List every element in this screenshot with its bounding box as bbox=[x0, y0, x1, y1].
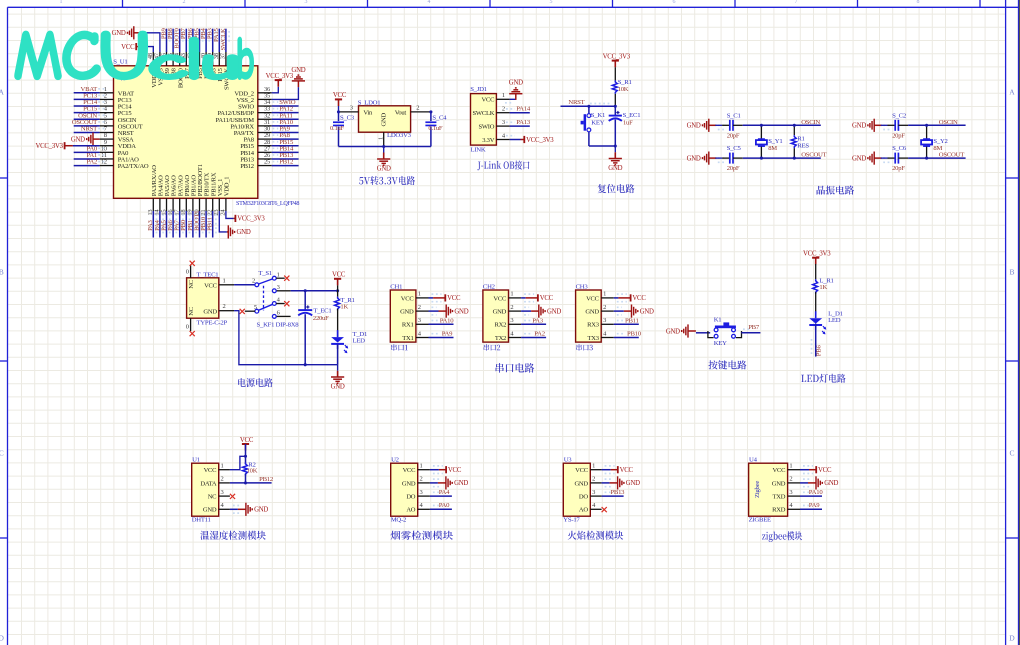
CH2 pin 4 TX2 bbox=[509, 337, 522, 339]
power port VCC_3V3 at U1 pin 9 VDDA bbox=[65, 145, 73, 147]
power port VCC_3V3 led circuit bbox=[815, 258, 817, 265]
svg-text:NC: NC bbox=[208, 494, 217, 501]
svg-text:GND: GND bbox=[112, 30, 126, 37]
svg-text:VCC: VCC bbox=[586, 295, 599, 302]
svg-text:D: D bbox=[1009, 634, 1015, 643]
svg-text:8: 8 bbox=[917, 0, 920, 5]
U1 pin 12 PA2/TX/AO bbox=[100, 165, 114, 167]
svg-text:PB12: PB12 bbox=[240, 163, 254, 170]
svg-text:VCC: VCC bbox=[620, 467, 634, 474]
svg-text:GND: GND bbox=[454, 308, 468, 315]
U1 pin 3 NC bbox=[219, 495, 230, 497]
svg-text:B: B bbox=[1009, 268, 1014, 277]
svg-text:NC: NC bbox=[188, 307, 195, 316]
svg-text:1: 1 bbox=[502, 92, 505, 99]
svg-text:VCC: VCC bbox=[403, 467, 416, 474]
svg-text:GND: GND bbox=[626, 480, 640, 487]
junction EC1 top bbox=[304, 289, 307, 292]
switch pin 6 stub bbox=[276, 315, 290, 317]
svg-text:2: 2 bbox=[502, 106, 505, 113]
svg-text:OSCIN: OSCIN bbox=[801, 119, 820, 126]
svg-text:1K: 1K bbox=[819, 284, 827, 291]
svg-text:GND: GND bbox=[493, 309, 507, 316]
connector T_TEC1 body TYPE-C-2P bbox=[187, 278, 219, 318]
svg-text:3: 3 bbox=[350, 104, 353, 111]
svg-text:PB11: PB11 bbox=[625, 317, 639, 324]
svg-text:7: 7 bbox=[795, 0, 798, 5]
led L_D1 bbox=[815, 311, 817, 318]
power port VCC power circuit bbox=[337, 279, 339, 286]
junction R2 jog bbox=[244, 455, 247, 458]
svg-text:VCC_3V3: VCC_3V3 bbox=[603, 53, 631, 60]
power port VCC_3V3 reset bbox=[614, 61, 616, 68]
wire net PA2 bbox=[521, 337, 546, 339]
wire CH3 pin1 to VCC bbox=[614, 297, 619, 299]
svg-text:3: 3 bbox=[603, 317, 606, 324]
svg-text:U3: U3 bbox=[564, 456, 573, 463]
wire net PB5 bbox=[199, 29, 201, 52]
svg-text:6: 6 bbox=[673, 0, 676, 5]
svg-text:S_C6: S_C6 bbox=[892, 145, 907, 152]
module U3 body YS-17 bbox=[563, 463, 590, 516]
svg-text:GND: GND bbox=[852, 123, 866, 130]
ground at S_C2 bbox=[874, 124, 882, 126]
wire net PA14 bbox=[510, 112, 530, 114]
MCUclub logo bbox=[15, 32, 253, 80]
svg-text:TX2: TX2 bbox=[495, 335, 506, 342]
wire net OSCIN bbox=[74, 118, 100, 120]
power port VCC at CH1 bbox=[444, 294, 446, 301]
svg-text:PA2/TX/AO: PA2/TX/AO bbox=[118, 163, 149, 170]
svg-text:VCC: VCC bbox=[818, 467, 832, 474]
op-amp U1 body STM32F103C8T6 bbox=[114, 66, 258, 199]
wire net PB0 bbox=[185, 211, 187, 238]
caption humidity module bbox=[200, 531, 266, 540]
svg-text:20pF: 20pF bbox=[892, 165, 905, 172]
U1 pin 33 PA12/USB/DP bbox=[258, 112, 272, 114]
svg-text:VCC_3V3: VCC_3V3 bbox=[237, 216, 265, 223]
power port VCC_3V3 at U1 pin 36 bbox=[277, 80, 279, 87]
svg-text:ZIGBEE: ZIGBEE bbox=[749, 517, 771, 524]
svg-text:VCC: VCC bbox=[575, 467, 588, 474]
wire net SWIO bbox=[272, 105, 299, 107]
svg-text:AO: AO bbox=[579, 507, 588, 514]
LDO pin 2 Vout bbox=[411, 111, 431, 113]
svg-text:VCC: VCC bbox=[240, 437, 254, 444]
ground at JD1 pin 1 bbox=[515, 94, 517, 100]
junction NRST-key bbox=[587, 105, 590, 108]
svg-text:A: A bbox=[1009, 88, 1015, 97]
resistor R1 feedback bbox=[793, 125, 795, 135]
svg-text:VCC: VCC bbox=[204, 467, 217, 474]
svg-text:DO: DO bbox=[406, 494, 415, 501]
connector CH3 body bbox=[576, 290, 602, 342]
svg-text:2: 2 bbox=[420, 476, 423, 483]
svg-text:PB6: PB6 bbox=[816, 345, 823, 357]
wire net PA9 bbox=[429, 337, 454, 339]
svg-text:YS-17: YS-17 bbox=[563, 517, 580, 524]
led T_D1 bbox=[337, 309, 339, 337]
svg-text:S_EC1: S_EC1 bbox=[623, 112, 641, 119]
svg-text:GND: GND bbox=[687, 123, 701, 130]
ground at U1 pin 35 bbox=[297, 81, 299, 87]
svg-text:1uF: 1uF bbox=[623, 120, 633, 127]
connector CH1 body bbox=[390, 290, 416, 342]
junction crystal top bbox=[925, 124, 928, 127]
regulator S_LDO1 body LDO3V3 bbox=[359, 106, 411, 132]
svg-text:GND: GND bbox=[400, 309, 414, 316]
U1 pin 2 PC13 bbox=[100, 98, 114, 100]
U1 pin 18 PB0/AO bbox=[185, 198, 187, 211]
power port VCC_3V3 at U1 pin 24 bbox=[234, 217, 236, 219]
svg-text:3: 3 bbox=[418, 317, 421, 324]
svg-text:GND: GND bbox=[331, 384, 345, 391]
wire net PA1 bbox=[74, 158, 100, 160]
svg-text:C: C bbox=[0, 449, 4, 458]
wire net PA11 bbox=[272, 118, 299, 120]
power port VCC_3V3 at JD1 pin 4 bbox=[523, 136, 525, 143]
svg-text:LINK: LINK bbox=[471, 147, 486, 154]
ground at LDO bbox=[383, 147, 385, 153]
svg-text:PA0: PA0 bbox=[439, 502, 450, 509]
svg-text:5: 5 bbox=[254, 304, 257, 311]
switch pin 4 stub NC bbox=[276, 303, 285, 305]
junction crystal bottom bbox=[925, 157, 928, 160]
svg-text:TX3: TX3 bbox=[588, 335, 600, 342]
LDO pin 1 GND bbox=[383, 132, 385, 146]
junction crystal bottom bbox=[760, 157, 763, 160]
U4 pin 2 GND bbox=[788, 482, 800, 484]
U4 pin 4 RXD bbox=[788, 508, 800, 510]
wire U2 pin2 to GND bbox=[430, 482, 438, 484]
wire U4 pin1 to VCC bbox=[800, 469, 809, 471]
wire TEC1 GND down bbox=[234, 311, 338, 365]
U1 pin 17 PA7/AO bbox=[179, 198, 181, 211]
svg-text:GND: GND bbox=[574, 480, 588, 487]
svg-text:20pF: 20pF bbox=[727, 132, 740, 139]
wire net PB7 bbox=[741, 332, 760, 334]
wire net PB11 bbox=[614, 323, 639, 325]
switch pin 3 wire bbox=[276, 290, 290, 292]
wire net PC14 bbox=[74, 105, 100, 107]
U1 pin 7 NRST bbox=[100, 131, 114, 133]
svg-text:S_C5: S_C5 bbox=[727, 145, 742, 152]
svg-text:1: 1 bbox=[418, 291, 421, 298]
U1 pin 41 PB5 bbox=[199, 52, 201, 66]
U1 pin3 no connect bbox=[230, 494, 235, 499]
U1 pin 26 PB13 bbox=[258, 158, 272, 160]
caption serial circuit bbox=[496, 363, 535, 373]
wire net VBAT bbox=[74, 92, 100, 94]
U1 pin 2 DATA bbox=[219, 482, 230, 484]
wire net SWCLK bbox=[225, 29, 227, 52]
svg-text:U2: U2 bbox=[391, 456, 399, 463]
U1 pin 23 VSS_1 bbox=[218, 198, 220, 211]
wire net PB13 bbox=[602, 495, 624, 497]
junction NRST-R1 bbox=[614, 105, 617, 108]
svg-text:VCC: VCC bbox=[447, 295, 461, 302]
svg-text:VCC: VCC bbox=[401, 295, 414, 302]
connector CH2 body bbox=[483, 290, 509, 342]
svg-text:RX2: RX2 bbox=[494, 322, 506, 329]
svg-text:GND: GND bbox=[547, 308, 561, 315]
svg-text:1: 1 bbox=[420, 463, 423, 470]
wire net OSCOUT bbox=[74, 125, 100, 127]
switch link dashed bbox=[263, 286, 265, 311]
CH3 pin 3 RX3 bbox=[601, 323, 614, 325]
svg-text:1: 1 bbox=[60, 0, 63, 5]
svg-text:RX3: RX3 bbox=[587, 322, 600, 329]
ground at S_C1 bbox=[709, 124, 717, 126]
U1 pin 43 PB7 bbox=[185, 52, 187, 66]
svg-text:SWCLK: SWCLK bbox=[473, 110, 495, 117]
U1 pin 5 OSCIN bbox=[100, 118, 114, 120]
LDO pin 3 Vin bbox=[339, 111, 359, 113]
svg-text:VCC: VCC bbox=[540, 295, 554, 302]
power port VCC at U3 bbox=[617, 466, 619, 473]
wire net PB10 bbox=[614, 337, 639, 339]
wire JD1 pin1 to GND bbox=[510, 98, 516, 100]
svg-text:VCC_3V3: VCC_3V3 bbox=[266, 73, 294, 80]
svg-text:A: A bbox=[0, 88, 4, 97]
no-ERC marker bbox=[121, 77, 124, 80]
wire net PB12 bbox=[272, 165, 299, 167]
svg-text:2: 2 bbox=[416, 104, 419, 111]
svg-text:PA2: PA2 bbox=[534, 331, 545, 338]
U3 pin 1 VCC bbox=[590, 469, 601, 471]
svg-text:220uF: 220uF bbox=[313, 315, 329, 322]
wire net PA4 bbox=[159, 211, 161, 238]
wire net PA15 bbox=[218, 29, 220, 52]
capacitor S_C6 bbox=[883, 157, 890, 159]
svg-text:U4: U4 bbox=[749, 456, 758, 463]
caption crystal circuit bbox=[817, 186, 855, 195]
svg-text:VCC: VCC bbox=[204, 282, 217, 289]
svg-text:RXD: RXD bbox=[772, 507, 786, 514]
U1 pin 21 PB10/TX bbox=[205, 198, 207, 211]
svg-text:TXD: TXD bbox=[772, 494, 785, 501]
wire net PB14 bbox=[272, 151, 299, 153]
ground at S_C6 bbox=[874, 157, 882, 159]
U1 pin 37 SWCLK bbox=[225, 52, 227, 66]
U1 pin 39 PB3 bbox=[212, 52, 214, 66]
U1 pin 34 SWIO bbox=[258, 105, 272, 107]
wire net PA12 bbox=[272, 112, 299, 114]
wire net PC15 bbox=[74, 112, 100, 114]
junction at LDO Vout bbox=[429, 110, 432, 113]
svg-text:PA4: PA4 bbox=[439, 489, 450, 496]
U1 pin 36 VDD_2 bbox=[258, 92, 272, 94]
svg-text:1: 1 bbox=[510, 291, 513, 298]
TEC1 pin 2 GND bbox=[219, 310, 234, 312]
svg-text:GND: GND bbox=[381, 113, 388, 127]
svg-text:0: 0 bbox=[186, 323, 189, 330]
svg-text:C: C bbox=[1009, 449, 1014, 458]
module U4 body ZIGBEE bbox=[749, 463, 788, 516]
svg-text:SWIO: SWIO bbox=[478, 124, 494, 131]
wire net PA9 bbox=[272, 131, 299, 133]
svg-text:Zigbee: Zigbee bbox=[754, 481, 761, 498]
U1 pin 47 VSS_3 bbox=[159, 52, 161, 66]
svg-text:RX1: RX1 bbox=[402, 322, 414, 329]
CH1 pin 2 GND bbox=[416, 310, 429, 312]
svg-text:GND: GND bbox=[824, 480, 838, 487]
U1 pin 22 PB11/RX bbox=[212, 198, 214, 211]
wire net PA9 bbox=[800, 508, 822, 510]
svg-text:GND: GND bbox=[852, 155, 866, 162]
svg-text:37: 37 bbox=[220, 52, 227, 59]
U4 pin 1 VCC bbox=[788, 469, 800, 471]
svg-text:2: 2 bbox=[789, 476, 792, 483]
svg-text:VCC_3V3: VCC_3V3 bbox=[803, 251, 831, 258]
switch pin 5 stub NC bbox=[245, 310, 255, 312]
TEC1 pin 0 bottom NC bbox=[190, 318, 192, 331]
wire net PA13 bbox=[510, 125, 530, 127]
svg-text:PA10: PA10 bbox=[440, 317, 455, 324]
junction R2 data bbox=[244, 481, 247, 484]
svg-text:3: 3 bbox=[502, 119, 505, 126]
svg-text:PB12: PB12 bbox=[279, 159, 293, 166]
U1 pin 11 PA1/AO bbox=[100, 158, 114, 160]
wire net NRST bbox=[74, 131, 100, 133]
svg-text:Vin: Vin bbox=[363, 109, 373, 116]
wire net PA4 bbox=[430, 495, 452, 497]
svg-text:DHT11: DHT11 bbox=[192, 517, 211, 524]
CH1 pin 1 VCC bbox=[416, 297, 429, 299]
svg-text:S_C3: S_C3 bbox=[340, 115, 355, 122]
U1 pin 13 PA3/RX/AO bbox=[152, 198, 154, 211]
wire CH1 pin2 to GND bbox=[429, 310, 439, 312]
wire net PB9 bbox=[166, 29, 168, 52]
wire U1 pin47 to GND bbox=[139, 33, 160, 52]
wire LDO ground bus bbox=[339, 146, 431, 148]
capacitor S_C2 bbox=[883, 124, 890, 126]
svg-text:2: 2 bbox=[592, 476, 595, 483]
wire U2 pin1 to VCC bbox=[430, 469, 439, 471]
U1 pin 4 PC15 bbox=[100, 112, 114, 114]
U1 pin 16 PA6/AO bbox=[172, 198, 174, 211]
junction VCC node bbox=[336, 289, 339, 292]
wire net PA0 bbox=[430, 508, 452, 510]
S_JD1 pin 4 3.3V bbox=[496, 139, 509, 141]
wire net PA6 bbox=[172, 211, 174, 238]
caption power circuit bbox=[238, 378, 273, 387]
wire net BOOT1 bbox=[199, 211, 201, 238]
CH2 pin 1 VCC bbox=[509, 297, 522, 299]
U1 pin 40 PB4 bbox=[205, 52, 207, 66]
svg-text:VCC: VCC bbox=[632, 295, 646, 302]
svg-text:1: 1 bbox=[223, 277, 226, 284]
power port VCC at U2 bbox=[445, 466, 447, 473]
wire CH2 pin1 to VCC bbox=[521, 297, 526, 299]
svg-text:3: 3 bbox=[277, 284, 280, 291]
wire switch pin3 to VCC node bbox=[291, 290, 338, 292]
wire U1 pin35 to GND bbox=[272, 87, 299, 99]
U1 pin 29 PA8 bbox=[258, 138, 272, 140]
CH2 pin 3 RX2 bbox=[509, 323, 522, 325]
U1 pin 10 PA0 bbox=[100, 151, 114, 153]
ground power circuit bbox=[337, 365, 339, 371]
wire JD1 pin4 to VCC_3V3 bbox=[510, 139, 521, 141]
capacitor S_EC1 bbox=[614, 106, 616, 115]
svg-text:PA13: PA13 bbox=[516, 119, 531, 126]
wire CH1 pin1 to VCC bbox=[429, 297, 434, 299]
svg-text:0.1uF: 0.1uF bbox=[428, 125, 443, 132]
U3 pin 2 GND bbox=[590, 482, 601, 484]
svg-text:S_JD1: S_JD1 bbox=[470, 86, 487, 93]
svg-text:GND: GND bbox=[291, 67, 305, 74]
svg-text:PA2: PA2 bbox=[86, 159, 97, 166]
caption J-Link OB interface bbox=[477, 161, 529, 171]
svg-text:20pF: 20pF bbox=[727, 165, 740, 172]
U1 pin 32 PA11/USB/DM bbox=[258, 118, 272, 120]
svg-text:GND: GND bbox=[585, 309, 599, 316]
svg-text:GND: GND bbox=[509, 80, 523, 87]
ground at U4 bbox=[815, 476, 817, 489]
junction at LDO GND bbox=[382, 145, 385, 148]
svg-text:STM32F103C8T6_LQFP48: STM32F103C8T6_LQFP48 bbox=[236, 200, 299, 207]
CH3 pin 2 GND bbox=[601, 310, 614, 312]
caption 5V to 3.3V circuit bbox=[359, 176, 415, 185]
svg-text:PB7: PB7 bbox=[748, 324, 760, 331]
svg-text:2: 2 bbox=[252, 277, 255, 284]
svg-text:AO: AO bbox=[406, 507, 415, 514]
U1 pin 9 VDDA bbox=[100, 145, 114, 147]
S_JD1 pin 2 SWCLK bbox=[496, 112, 509, 114]
ground at S_C5 bbox=[709, 157, 717, 159]
svg-text:S_KF1 DIP-8X8: S_KF1 DIP-8X8 bbox=[257, 321, 300, 328]
svg-text:LDO3V3: LDO3V3 bbox=[387, 132, 412, 139]
ground at U1 pin 8 VSSA bbox=[93, 138, 100, 140]
resistor T_R1 bbox=[337, 285, 339, 296]
caption smoke module bbox=[391, 531, 453, 540]
wire net PB7 bbox=[185, 29, 187, 52]
wire net PA10 bbox=[800, 495, 822, 497]
U1 pin 38 PA15 bbox=[218, 52, 220, 66]
CH2 pin 2 GND bbox=[509, 310, 522, 312]
U1 pin 44 BOOT0 bbox=[179, 52, 181, 66]
svg-text:3.3V: 3.3V bbox=[482, 137, 494, 144]
capacitor S_C1 bbox=[718, 124, 725, 126]
svg-text:2: 2 bbox=[221, 476, 224, 483]
svg-text:1: 1 bbox=[592, 463, 595, 470]
junction crystal top bbox=[760, 124, 763, 127]
ground at CH1 bbox=[445, 305, 447, 318]
U1 pin 20 PB2/BOOT1 bbox=[199, 198, 201, 211]
label serial port 3 bbox=[576, 344, 592, 351]
svg-text:1K: 1K bbox=[340, 304, 348, 311]
svg-text:NRST: NRST bbox=[568, 99, 584, 106]
wire U1 pin24 to VCC_3V3 bbox=[226, 211, 234, 218]
svg-text:PB11: PB11 bbox=[207, 217, 214, 231]
svg-text:5: 5 bbox=[550, 0, 553, 5]
S_JD1 pin 3 SWIO bbox=[496, 125, 509, 127]
svg-text:GND: GND bbox=[772, 480, 786, 487]
svg-text:VCC: VCC bbox=[333, 92, 347, 99]
svg-text:T_S1: T_S1 bbox=[258, 270, 272, 277]
svg-text:OSCOUT: OSCOUT bbox=[801, 152, 826, 159]
power port VCC at U1 pin 48 bbox=[136, 46, 143, 48]
CH3 pin 4 TX3 bbox=[601, 337, 614, 339]
svg-text:3: 3 bbox=[789, 489, 792, 496]
svg-text:KEY: KEY bbox=[591, 120, 604, 127]
wire net PB6 bbox=[192, 29, 194, 52]
wire net PA2 bbox=[74, 165, 100, 167]
svg-text:TX1: TX1 bbox=[402, 335, 413, 342]
wire U1 pin4 to GND bbox=[230, 508, 238, 510]
module U2 body MQ-2 bbox=[391, 463, 418, 516]
svg-text:S_C4: S_C4 bbox=[432, 115, 447, 122]
